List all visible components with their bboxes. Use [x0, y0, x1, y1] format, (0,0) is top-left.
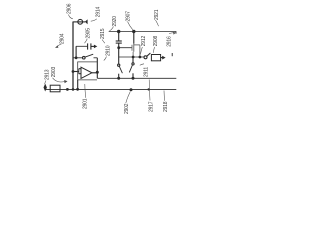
arrow head leader 2916: [173, 32, 176, 35]
leader for label 2907: [128, 22, 133, 30]
svg-text:2901: 2901: [83, 98, 89, 109]
wire: stub right of box Z1: [161, 57, 163, 59]
leader for label 2912: [140, 47, 142, 55]
node: dot leader 2902 on bottom rail: [130, 88, 133, 91]
leader for label 2916 with arrow: [169, 32, 174, 35]
wire: feedback drop x=97.3 to output node: [96, 58, 98, 73]
leader for label 2911: [140, 64, 144, 65]
node: output junction dot: [96, 71, 99, 74]
svg-text:2920: 2920: [112, 16, 118, 27]
leader for label 2914: [91, 19, 97, 21]
node: dot Q1 lead on wire W2: [139, 56, 142, 59]
svg-text:2905: 2905: [86, 28, 92, 39]
leader for label 2917 (crosses to mid rail): [148, 80, 151, 101]
capacitor C2 top plate: [116, 40, 122, 42]
svg-text:2921: 2921: [154, 9, 160, 20]
wire: bottom rail y=89: [46, 88, 176, 90]
wire: capacitor branch horizontal y=46.3: [76, 45, 87, 47]
switch S4 pivot circle: [132, 63, 134, 65]
arrow head at node 2914: [85, 19, 88, 24]
node: dot top rail at Q1 branch: [132, 30, 135, 33]
svg-text:2917: 2917: [149, 101, 155, 112]
current source B1 circle: [78, 19, 83, 24]
leader for label 2906: [69, 15, 73, 19]
node: dot amp drop on bottom rail: [76, 88, 79, 91]
svg-text:2904: 2904: [60, 33, 66, 44]
arrow head at node 2908 out: [162, 56, 165, 60]
wire: feedback run to output corner: [94, 57, 98, 59]
transistor Q1 drain lead: [134, 44, 140, 46]
svg-text:2913: 2913: [44, 69, 50, 80]
stray mark near node 2916: [171, 53, 173, 56]
node: dot leader 2917 on bottom rail: [148, 88, 150, 90]
wire: op-amp output to node: [92, 72, 97, 74]
svg-text:2915: 2915: [100, 28, 106, 39]
switch S2 pivot circle: [118, 64, 120, 66]
node: dot Q1 source on wire W2: [132, 56, 135, 59]
leader for label 2910: [104, 57, 107, 61]
wire: stub right of capacitor: [91, 45, 94, 47]
wire: capacitor branch vertical x=76.1: [75, 46, 77, 58]
node: gate branch dot: [117, 46, 120, 49]
leader for label 2908: [153, 47, 154, 53]
switch S3 blade: [147, 53, 151, 56]
leader for label 2913: [45, 81, 46, 85]
leader for label 2915: [102, 40, 105, 44]
leader for label 2903: [53, 78, 65, 82]
wire: C2 branch upper vertical: [118, 32, 120, 41]
switch S2 blade: [119, 66, 122, 73]
svg-text:2908: 2908: [153, 36, 159, 47]
wire: S2 lower lead to mid rail: [118, 74, 120, 79]
block Z1 box: [151, 55, 160, 61]
wire: gate wire y=47.7 to transistor Q1: [119, 47, 132, 49]
switch S4 blade: [129, 65, 132, 72]
node: feedback junction dot on wire y=57.8: [75, 56, 78, 59]
wire: Q1 drain lead drop x=139.9: [139, 45, 141, 57]
wire: S4 lower lead: [132, 73, 134, 78]
arrow head leader 2904: [55, 45, 58, 48]
wire: amp box drop to bottom rail: [77, 80, 79, 90]
node: op-amp input junction dot: [72, 70, 75, 73]
wire: top rail y=31.5: [109, 31, 177, 33]
wire: upper mid rail y=78: [97, 77, 176, 79]
leader for label 2901: [85, 84, 86, 98]
leader for label 2902: [126, 92, 131, 104]
wire: W2 horizontal y=56.4: [119, 56, 144, 58]
wire: input splitter bar: [78, 69, 80, 74]
wire: output drop to mid rail corner: [96, 72, 98, 78]
svg-text:2911: 2911: [144, 67, 150, 77]
wire: top stub y=21.5 from rail corner to current-source circle: [73, 21, 85, 23]
switch S1 pivot circle: [83, 56, 86, 59]
node: dot top rail at C2 branch: [117, 30, 120, 33]
leader for label 2920: [110, 27, 114, 31]
svg-text:2910: 2910: [106, 45, 112, 56]
node: dot rail-A on bottom rail: [72, 88, 75, 91]
node: dot S4 on mid rail: [132, 77, 135, 80]
node: dot right of resistor: [66, 88, 69, 91]
wire: S4 upper lead: [132, 57, 134, 63]
transistor Q1 gate bar: [131, 45, 133, 51]
capacitor C2 bottom plate: [116, 42, 122, 44]
op-amp U1 triangle: [81, 67, 92, 78]
resistor R1 box: [50, 85, 60, 92]
wire: input stub to op-amp: [73, 71, 79, 73]
wire: C2 branch lower vertical: [118, 43, 120, 63]
arrow head at start of bottom rail (node 2913): [44, 84, 47, 92]
switch S3 pivot circle: [144, 56, 147, 59]
leader for label 2918: [163, 91, 166, 101]
switch S1 blade: [85, 54, 93, 57]
wire: op-amp plus input stub: [79, 68, 81, 70]
wire: left main rail x=73.5 from top corner to bottom rail: [72, 22, 74, 90]
wire: op-amp minus input stub: [79, 73, 81, 75]
leader for label 2921: [156, 20, 159, 26]
svg-text:2903: 2903: [51, 67, 57, 78]
svg-text:2907: 2907: [126, 11, 132, 22]
transistor Q1 channel bar: [133, 44, 135, 52]
wire: Q1 source drop x=133.1: [132, 52, 134, 57]
leader for label 2904 with arrow: [57, 44, 62, 47]
svg-text:2902: 2902: [124, 103, 130, 114]
arrow head at node 2915: [94, 45, 97, 49]
svg-text:2912: 2912: [141, 36, 147, 47]
svg-text:2918: 2918: [163, 101, 169, 112]
leader for label 2905: [85, 39, 88, 43]
svg-text:2914: 2914: [95, 6, 101, 17]
wire: top rail end tick: [175, 32, 177, 34]
node: dot S2 on mid rail: [117, 77, 120, 80]
svg-text:2906: 2906: [67, 3, 73, 14]
arrow head leader 2903: [64, 80, 67, 83]
capacitor C1 right plate: [90, 43, 92, 49]
wire: Q1 drain vertical from top rail: [133, 32, 135, 44]
capacitor C1 left plate: [87, 43, 89, 49]
wire: feedback run y=57.8 from rail to switch: [73, 57, 83, 59]
amp enclosure box U1: [78, 62, 97, 80]
svg-text:2916: 2916: [166, 36, 172, 47]
